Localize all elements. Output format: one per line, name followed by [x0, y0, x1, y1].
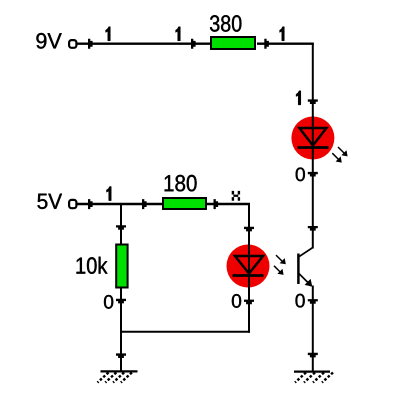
- transistor Q1 base bar: [297, 254, 300, 285]
- ground right: [294, 372, 333, 383]
- LED D2 light arrow 2: [274, 266, 284, 275]
- pin arrow 380 output: [264, 39, 269, 49]
- resistor 180: [163, 198, 206, 209]
- wire corner down to LED D2: [248, 203, 250, 248]
- wire emitter down to ground: [312, 286, 314, 372]
- wire through LED D2 to bottom rail: [248, 244, 250, 333]
- node 5V label: [38, 194, 63, 209]
- terminal 9V: [69, 40, 76, 48]
- pin state 0 at LED D2 cathode: [232, 294, 241, 308]
- LED D1 body: [291, 117, 334, 160]
- pin arrow right ground: [308, 353, 318, 358]
- pin state 1 at 380 input: [176, 27, 181, 41]
- pin arrow 10k output net: [116, 299, 126, 304]
- wire through LED D1 to transistor collector: [312, 116, 314, 249]
- value label 10k: [77, 257, 108, 274]
- LED D1 cathode bar: [298, 146, 329, 149]
- wire 10k to ground: [120, 289, 122, 372]
- value label 380: [210, 15, 241, 32]
- ground left: [98, 371, 138, 382]
- wire junction node 1 down to 10k: [120, 203, 122, 245]
- pin arrow LED D2 cathode: [244, 300, 254, 305]
- pin arrow 10k input: [116, 225, 126, 230]
- LED D1 triangle: [299, 128, 326, 146]
- pin arrow 380 input: [191, 39, 196, 49]
- wire 9V to resistor 380: [77, 43, 211, 45]
- terminal 5V: [69, 200, 76, 208]
- transistor Q1 emitter lead: [298, 273, 311, 286]
- wire bottom rail: [120, 331, 250, 333]
- pin arrow 180 input: [142, 199, 147, 209]
- resistor 10k: [116, 245, 127, 288]
- pin state 0 at emitter: [296, 294, 305, 308]
- LED D1 light arrow 2: [332, 153, 342, 162]
- transistor Q1 collector lead: [298, 248, 313, 258]
- wire 180 to corner: [207, 203, 250, 205]
- LED D2 cathode bar: [233, 274, 264, 277]
- LED D2 light arrow 1: [276, 255, 286, 264]
- pin state 0 at 10k bottom: [104, 295, 113, 309]
- wire 380 to corner: [257, 43, 314, 45]
- pin arrow 9V output: [88, 39, 93, 49]
- node 9V label: [36, 33, 61, 49]
- LED D2 body: [227, 245, 270, 288]
- LED D2 triangle: [235, 256, 263, 274]
- value label 180: [165, 175, 197, 192]
- pin state 0 at LED D1 cathode: [296, 168, 305, 182]
- pin arrow 5V output: [88, 199, 93, 209]
- pin state 1 at 5V: [107, 187, 112, 201]
- resistor 380: [211, 37, 255, 49]
- transistor Q1 emitter arrow: [305, 279, 313, 287]
- pin arrow 180 output: [214, 199, 219, 209]
- pin arrow LED D1 anode: [308, 99, 318, 104]
- pin state 1 at 9V: [106, 27, 111, 41]
- pin arrow LED D2 anode: [244, 227, 254, 232]
- pin arrow transistor collector: [308, 226, 318, 231]
- pin arrow LED D1 cathode: [308, 172, 318, 177]
- LED D1 light arrow 1: [338, 147, 348, 156]
- pin arrow emitter net: [308, 299, 318, 304]
- pin state 1 at LED D1 anode: [296, 91, 301, 105]
- pin state 1 after 380: [280, 27, 285, 41]
- wire corner down to LED D1: [312, 43, 314, 120]
- pin arrow left ground: [116, 353, 126, 358]
- wire 5V to resistor 180: [77, 203, 164, 205]
- pin state x after 180: [232, 191, 240, 201]
